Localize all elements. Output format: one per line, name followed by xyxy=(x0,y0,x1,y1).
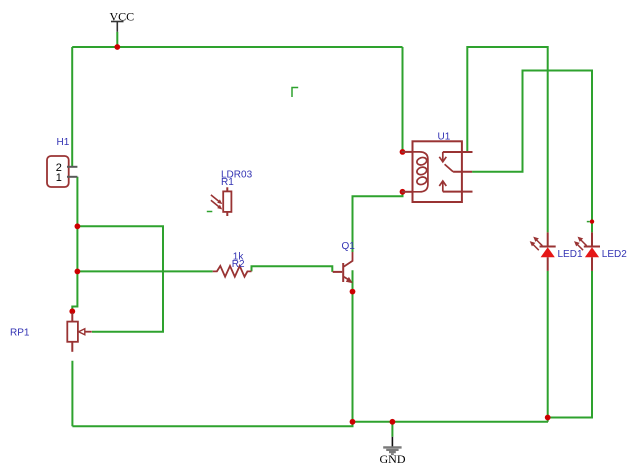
svg-text:R2: R2 xyxy=(232,259,245,270)
svg-text:U1: U1 xyxy=(438,132,451,143)
svg-text:RP1: RP1 xyxy=(10,327,30,338)
svg-text:Q1: Q1 xyxy=(342,241,356,252)
svg-text:LED1: LED1 xyxy=(558,249,583,260)
svg-text:GND: GND xyxy=(380,452,406,466)
svg-text:LED2: LED2 xyxy=(602,249,627,260)
svg-text:1: 1 xyxy=(56,172,62,184)
svg-text:R1: R1 xyxy=(221,177,234,188)
svg-text:VCC: VCC xyxy=(110,9,135,23)
svg-text:H1: H1 xyxy=(57,137,70,148)
